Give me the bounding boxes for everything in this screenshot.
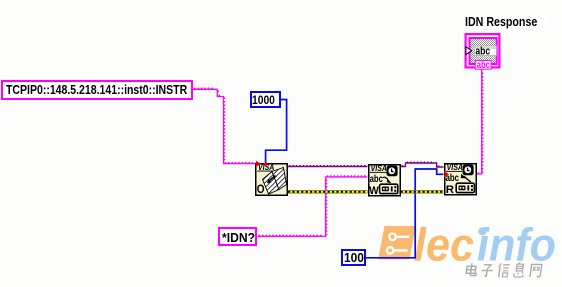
svg-text:info: info [477, 219, 556, 271]
svg-text:abc: abc [477, 60, 491, 71]
svg-text:abc: abc [370, 174, 384, 185]
svg-text:abc: abc [475, 46, 490, 58]
svg-text:lec: lec [414, 219, 474, 271]
svg-text:W: W [369, 185, 379, 197]
svg-text:R: R [446, 184, 454, 196]
svg-text:VISA: VISA [371, 164, 388, 173]
svg-text:O: O [257, 183, 265, 196]
svg-text:VISA: VISA [447, 163, 464, 172]
